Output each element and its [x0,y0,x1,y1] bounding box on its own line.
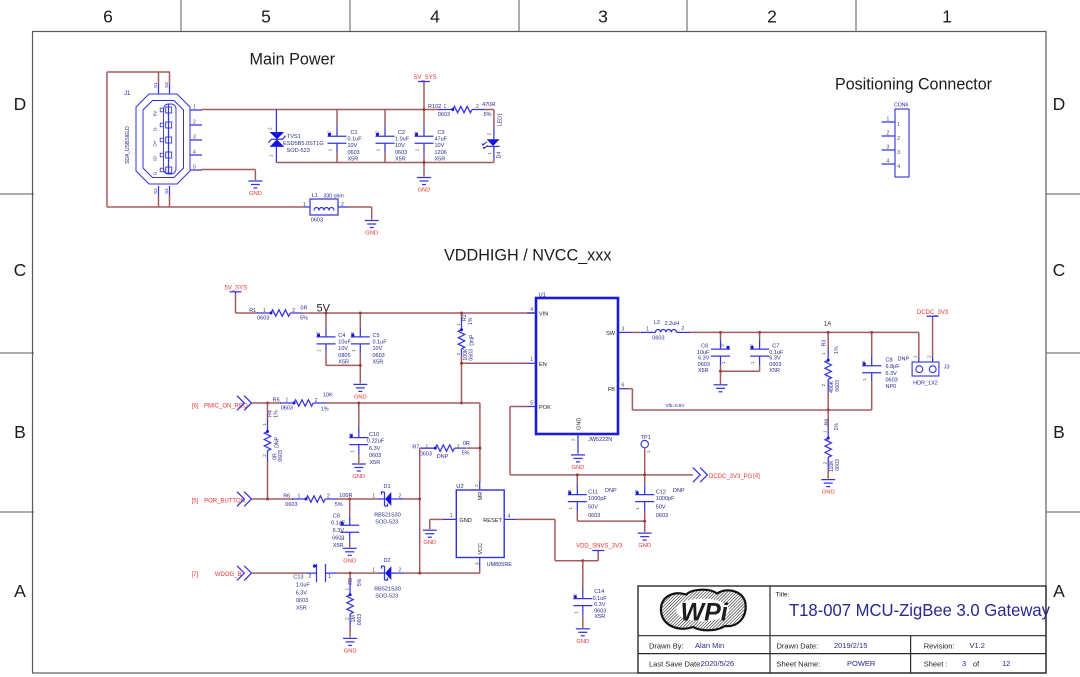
svg-text:MR: MR [478,492,484,501]
resistor R7 dnp [412,441,480,460]
svg-text:6.3V: 6.3V [886,371,898,377]
svg-text:5%: 5% [484,112,492,118]
wire FB net [627,388,632,390]
wire U2 gnd [430,518,443,520]
svg-text:4: 4 [193,150,196,156]
svg-text:2: 2 [767,7,777,27]
svg-text:2: 2 [634,489,639,492]
svg-text:SOD-523: SOD-523 [287,148,310,154]
svg-text:2: 2 [861,360,866,363]
svg-text:C: C [14,260,27,280]
svg-text:2: 2 [476,104,479,110]
svg-text:0603: 0603 [285,502,297,508]
svg-text:47uF: 47uF [435,137,448,143]
svg-text:10uF: 10uF [338,340,351,346]
svg-text:GND: GND [418,188,431,194]
test point TP1 [641,435,652,475]
svg-text:DNP: DNP [437,454,449,460]
svg-text:2: 2 [749,344,754,347]
svg-text:10K: 10K [323,393,333,399]
svg-text:S4: S4 [164,188,169,194]
svg-text:12: 12 [1002,659,1010,668]
svg-text:0603: 0603 [348,150,360,156]
svg-text:DCDC_3V3_PG: DCDC_3V3_PG [709,474,753,480]
svg-text:0.1uF: 0.1uF [373,340,388,346]
svg-text:TVS1: TVS1 [287,134,301,140]
svg-text:6.3V: 6.3V [333,528,345,534]
svg-text:0603: 0603 [395,150,407,156]
svg-text:GND: GND [343,558,356,564]
svg-text:0805: 0805 [338,353,350,359]
svg-text:1206: 1206 [435,150,447,156]
svg-text:NP0: NP0 [886,384,897,390]
svg-text:1: 1 [193,105,196,111]
svg-text:SOD-523: SOD-523 [375,520,398,526]
svg-text:DNP: DNP [469,334,475,345]
wire C4 C5 bottom [326,364,360,366]
svg-text:Sheet :: Sheet : [924,660,948,669]
svg-text:2: 2 [457,445,460,451]
svg-text:S1: S1 [153,82,158,88]
svg-text:Alan Min: Alan Min [695,641,724,650]
resistor R5 [273,393,334,413]
svg-text:C13: C13 [293,574,303,580]
capacitor C6 [697,332,730,374]
svg-text:GND: GND [572,465,585,471]
TVS diode TVS1 [268,110,324,163]
svg-text:0603: 0603 [656,513,668,519]
svg-text:RB521S30: RB521S30 [374,586,401,592]
svg-text:DNP: DNP [898,357,910,363]
capacitor C2 [375,110,410,163]
svg-text:2: 2 [682,326,685,332]
svg-text:R6: R6 [283,493,290,499]
ground below C9 [343,547,357,549]
capacitor C7 [749,332,784,374]
inductor L2 [631,320,690,342]
svg-text:1: 1 [328,148,333,151]
svg-text:D: D [14,94,27,114]
svg-text:3: 3 [598,7,608,27]
svg-text:S2: S2 [153,188,158,194]
svg-text:R5: R5 [273,398,280,404]
svg-text:3: 3 [622,326,625,332]
svg-text:1: 1 [573,611,578,614]
title block [638,586,1046,673]
svg-text:2: 2 [567,489,572,492]
svg-text:Drawn Date:: Drawn Date: [777,642,819,651]
svg-text:D2: D2 [384,558,391,564]
svg-text:0603: 0603 [438,112,450,118]
svg-text:1%: 1% [321,406,329,412]
ground at U2 [423,529,437,531]
svg-text:1: 1 [635,507,640,510]
svg-text:4: 4 [530,307,533,313]
svg-text:POR_BUTTON: POR_BUTTON [204,498,245,504]
resistor R9 vertical [345,573,364,637]
svg-text:C5: C5 [373,333,380,339]
svg-text:2: 2 [399,568,402,574]
svg-text:C3: C3 [438,130,445,136]
svg-text:5%: 5% [335,502,343,508]
logo WPI [661,590,746,631]
resistor R1 [249,305,308,321]
svg-text:0603: 0603 [296,598,308,604]
svg-text:0603: 0603 [373,353,385,359]
svg-text:2: 2 [327,131,332,134]
svg-text:C9: C9 [333,513,340,519]
svg-text:50V: 50V [588,505,598,511]
svg-text:J1: J1 [124,91,131,97]
diode D1 [372,484,404,525]
svg-text:RESET: RESET [483,518,502,524]
svg-text:D-: D- [153,126,158,131]
wire 3V3 output rail [690,331,919,333]
resistor R3 vertical [821,332,841,410]
svg-text:[4]: [4] [753,474,760,480]
svg-text:2: 2 [327,493,330,499]
svg-text:X5R: X5R [435,156,446,162]
svg-text:X5R: X5R [348,156,359,162]
svg-text:GND: GND [577,418,583,430]
svg-text:GND: GND [423,540,436,546]
svg-text:1: 1 [372,568,375,574]
svg-text:UM805RE: UM805RE [487,562,513,568]
svg-text:0603: 0603 [420,451,432,457]
svg-text:10V: 10V [395,143,405,149]
svg-text:4: 4 [430,7,440,27]
svg-text:0603: 0603 [369,453,381,459]
svg-text:2: 2 [350,331,355,334]
svg-text:GND: GND [352,474,365,480]
svg-text:DNP: DNP [274,436,280,447]
svg-text:D1: D1 [384,484,391,490]
ground below U1 [571,454,585,456]
wire U2 VCC down [479,568,481,573]
ground below C14 [576,628,590,630]
svg-text:10V: 10V [338,346,348,352]
svg-text:4: 4 [887,159,890,165]
svg-text:470R: 470R [482,102,495,108]
svg-text:2: 2 [292,308,295,314]
svg-text:1: 1 [372,493,375,499]
svg-text:1A: 1A [824,322,831,328]
svg-text:Vfb=0.8V: Vfb=0.8V [665,403,685,408]
svg-text:0603: 0603 [332,536,344,542]
svg-text:C1: C1 [351,130,358,136]
svg-text:1000pF: 1000pF [588,496,607,502]
wire RESET to VDD_SNVS node [517,518,555,520]
svg-text:Drawn By:: Drawn By: [649,642,684,651]
svg-text:1: 1 [328,574,331,580]
svg-text:2.2uH: 2.2uH [665,321,680,327]
capacitor C5 [350,313,387,366]
capacitor C13 series [293,564,336,612]
svg-text:Last Save Date:: Last Save Date: [649,660,702,669]
svg-text:DNP: DNP [673,488,685,494]
svg-text:X5R: X5R [333,543,344,549]
svg-text:R8: R8 [824,419,830,426]
svg-text:L1: L1 [312,193,318,199]
svg-text:2: 2 [926,355,932,358]
svg-text:5%: 5% [357,578,363,586]
svg-text:R9: R9 [348,578,354,585]
svg-text:V1.2: V1.2 [970,641,985,650]
svg-text:4: 4 [508,514,511,520]
svg-text:1000pF: 1000pF [656,496,675,502]
svg-text:2: 2 [571,438,577,441]
svg-text:2: 2 [345,617,351,620]
wire POR row [252,498,294,500]
svg-text:B: B [1053,422,1065,442]
ground below C12 [638,532,652,534]
svg-text:1: 1 [721,361,726,364]
IC U2 reset [443,482,517,569]
wire R4 to POR row [267,462,269,499]
svg-text:ESD5B5.0ST1G: ESD5B5.0ST1G [283,141,324,147]
svg-text:1.0uF: 1.0uF [296,583,311,589]
svg-text:1: 1 [887,117,890,123]
capacitor C9 [331,499,359,549]
wire C6 C7 bottom [721,370,760,372]
svg-text:6.3V: 6.3V [698,355,710,361]
connector J1 usb [107,72,202,207]
svg-text:VDD_SNVS_3V3: VDD_SNVS_3V3 [576,544,623,550]
svg-text:DCDC_3V3: DCDC_3V3 [917,310,949,316]
svg-text:Sheet Name:: Sheet Name: [777,660,821,669]
wire WDOG row [252,572,307,574]
ground at J1 pin5 [248,180,262,182]
svg-text:2: 2 [309,574,312,580]
svg-text:6: 6 [103,7,113,27]
svg-text:0603: 0603 [357,614,363,626]
svg-text:0R: 0R [463,441,470,447]
svg-text:10V: 10V [435,143,445,149]
svg-text:2: 2 [456,353,462,356]
svg-text:of: of [973,660,980,669]
wire 5V rail from J1 pin1 [202,109,441,111]
wire C11 C12 bottom [577,520,644,522]
svg-text:GND: GND [344,648,357,654]
svg-text:2: 2 [572,593,577,596]
svg-text:1: 1 [487,152,492,155]
resistor R6 [283,493,352,508]
svg-text:X5R: X5R [370,460,381,466]
connector J3 HDR_1X2 [912,332,949,386]
svg-text:X5R: X5R [395,156,406,162]
ground below C4 C5 [353,383,367,385]
svg-text:C: C [1053,260,1066,280]
svg-text:3: 3 [897,150,900,156]
svg-text:C11: C11 [588,489,598,495]
svg-text:0603: 0603 [835,380,841,392]
svg-text:A: A [14,581,26,601]
svg-text:0603: 0603 [652,336,664,342]
svg-text:X5R: X5R [595,614,606,620]
svg-text:GND: GND [638,543,651,549]
svg-text:2: 2 [474,484,480,487]
svg-text:1: 1 [351,349,356,352]
wire PMIC_ON_REQ to R5 [252,402,282,404]
svg-text:0.22uF: 0.22uF [367,439,385,445]
svg-text:T18-007 MCU-ZigBee 3.0 Gateway: T18-007 MCU-ZigBee 3.0 Gateway [789,600,1050,620]
wire 5V rail to U1 VIN [236,312,259,314]
svg-text:1%: 1% [468,317,474,325]
svg-text:GND: GND [354,394,367,400]
wire J1 shield bottom to L1 [107,206,304,208]
svg-text:10V: 10V [348,143,358,149]
svg-text:6: 6 [622,383,625,389]
svg-text:2: 2 [375,131,380,134]
svg-text:2: 2 [399,493,402,499]
svg-text:EN: EN [539,362,547,368]
wire C3 node to gnd [423,163,425,177]
svg-text:0603: 0603 [886,377,898,383]
svg-text:CON6: CON6 [894,103,909,109]
svg-text:Positioning Connector: Positioning Connector [835,75,992,94]
wire C8 bottom to FB net [871,382,873,410]
wire L1 pin2 to gnd [348,206,372,208]
svg-text:R7: R7 [412,445,419,451]
svg-text:[7]: [7] [192,572,199,578]
svg-text:6.3V: 6.3V [769,355,781,361]
svg-text:2: 2 [316,331,321,334]
ground below C6 [714,384,728,386]
svg-text:FB: FB [608,387,615,393]
wire bottom rail main power [276,162,494,164]
svg-text:1: 1 [646,327,649,333]
svg-text:1: 1 [317,349,322,352]
IC U1 regulator [527,293,631,454]
svg-text:LED1: LED1 [498,113,504,126]
svg-text:5V: 5V [317,302,331,314]
svg-text:5V_SYS: 5V_SYS [414,75,437,81]
svg-text:0603: 0603 [281,406,293,412]
svg-text:1: 1 [376,148,381,151]
svg-text:2: 2 [823,461,829,464]
output port DCDC_3V3_PG [693,468,708,483]
svg-text:X5R: X5R [296,606,307,612]
svg-text:GND: GND [459,518,471,524]
svg-text:2: 2 [348,432,353,435]
svg-text:5V: 5V [153,110,158,117]
svg-text:R1: R1 [249,308,256,314]
svg-text:0603: 0603 [469,349,475,361]
capacitor C10 [348,403,384,466]
svg-text:[6]: [6] [192,403,199,409]
wire J1 pin5 to gnd [202,169,255,171]
capacitor C14 [572,561,607,628]
capacitor C11 dnp [567,475,617,521]
svg-text:4: 4 [897,164,900,170]
svg-text:DNP: DNP [605,488,617,494]
svg-text:5%: 5% [462,451,470,457]
svg-text:JW5222N: JW5222N [588,437,612,443]
svg-text:3: 3 [962,659,966,668]
svg-text:2: 2 [193,120,196,126]
svg-text:GND: GND [365,231,378,237]
svg-text:1: 1 [862,378,867,381]
svg-text:0603: 0603 [257,315,269,321]
resistor R8 vertical [823,410,841,479]
connector CON6 [882,103,909,178]
LED D4 [482,110,504,163]
svg-text:6.3V: 6.3V [594,602,606,608]
svg-text:1: 1 [530,357,533,363]
capacitor C4 [316,313,352,366]
svg-text:1: 1 [349,450,354,453]
svg-text:C12: C12 [656,489,666,495]
svg-text:POWER: POWER [847,659,876,668]
svg-text:6.3V: 6.3V [369,446,381,452]
svg-text:1.0uF: 1.0uF [395,137,410,143]
svg-text:1: 1 [913,355,919,358]
svg-text:HDR_1X2: HDR_1X2 [913,380,938,386]
svg-text:R3: R3 [822,340,828,347]
capacitor C3 [414,110,448,163]
diode D2 [372,558,404,600]
svg-text:1: 1 [897,122,900,128]
svg-text:[5]: [5] [192,498,199,504]
wire EN node down to R7 corner [462,402,480,404]
wire EN net [462,362,528,364]
svg-text:TP1: TP1 [641,435,651,441]
svg-text:2: 2 [262,454,268,457]
svg-text:GND: GND [249,191,262,197]
svg-text:VDDHIGH / NVCC_xxx: VDDHIGH / NVCC_xxx [444,246,612,265]
svg-text:5: 5 [530,401,533,407]
svg-text:3: 3 [887,145,890,151]
svg-text:10V: 10V [373,346,383,352]
svg-text:ID: ID [153,156,158,161]
svg-text:X5R: X5R [373,360,384,366]
svg-text:SDA_USBSIELD: SDA_USBSIELD [125,126,131,164]
svg-text:0603: 0603 [278,450,284,462]
svg-text:C2: C2 [398,130,405,136]
svg-text:D: D [1053,94,1066,114]
svg-text:1%: 1% [274,410,280,418]
svg-text:RB521S30: RB521S30 [374,512,401,518]
svg-text:C10: C10 [369,432,379,438]
svg-text:GND: GND [576,639,589,645]
svg-text:1%: 1% [834,346,840,354]
svg-text:330 ohm: 330 ohm [324,193,344,199]
svg-text:5: 5 [261,7,271,27]
svg-text:J3: J3 [944,365,950,371]
wire R7 pin1 down to D1 net [419,448,421,573]
wire POK route to PG row [510,406,527,408]
svg-text:VIN: VIN [539,312,548,318]
svg-text:X5R: X5R [769,368,780,374]
svg-text:L2: L2 [654,320,660,326]
svg-text:6.8pF: 6.8pF [886,364,901,370]
svg-text:SOD-523: SOD-523 [375,594,398,600]
svg-text:1: 1 [269,154,274,157]
svg-text:5: 5 [193,165,196,171]
svg-text:2: 2 [268,127,273,130]
svg-text:Title:: Title: [776,592,790,599]
svg-text:1: 1 [646,450,652,453]
svg-text:Main Power: Main Power [250,50,336,69]
svg-text:2: 2 [315,398,318,404]
svg-text:VCC: VCC [478,543,484,555]
resistor R4 vertical dnp [262,403,284,463]
svg-text:0603: 0603 [588,513,600,519]
svg-text:2020/5/26: 2020/5/26 [701,659,734,668]
svg-text:R2: R2 [462,314,468,321]
capacitor C8 dnp [861,332,909,389]
svg-text:1: 1 [821,352,827,355]
